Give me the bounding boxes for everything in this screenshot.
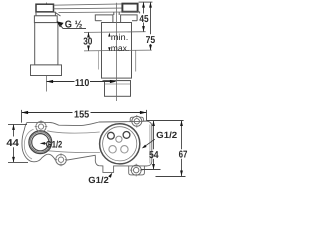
boss hole BR xyxy=(121,146,128,153)
svg-text:G1/2: G1/2 xyxy=(156,130,177,140)
svg-text:G1/2: G1/2 xyxy=(46,139,63,150)
right wing xyxy=(121,15,138,23)
dim 45 ext top xyxy=(139,1,153,3)
right boss inner xyxy=(103,127,137,161)
dim 44 ext top xyxy=(8,123,27,125)
svg-text:155: 155 xyxy=(74,109,90,120)
dim 67 line xyxy=(181,121,183,150)
boss hole TR xyxy=(123,132,130,139)
svg-text:G1/2: G1/2 xyxy=(88,175,109,185)
dim 54 line xyxy=(153,121,155,150)
screw hole A xyxy=(36,122,46,132)
spout body xyxy=(35,23,58,65)
min label xyxy=(108,33,110,37)
dim 75 line xyxy=(150,2,152,34)
boss hole BL xyxy=(109,146,116,153)
bar bottom line xyxy=(59,11,123,14)
boss hole TL xyxy=(108,132,115,139)
ear top right xyxy=(132,116,142,126)
bar mid line xyxy=(54,7,123,10)
svg-text:G ½: G ½ xyxy=(65,19,83,30)
svg-text:110: 110 xyxy=(75,78,90,89)
plate rib bottom xyxy=(49,151,100,153)
spout ring xyxy=(34,16,57,23)
dim 30 line xyxy=(88,32,90,36)
dim 54 ext bottom xyxy=(141,169,161,171)
svg-text:67: 67 xyxy=(179,150,188,161)
dim 155 ext right xyxy=(146,110,148,123)
valve body xyxy=(102,23,132,79)
centerline valve xyxy=(116,3,118,101)
svg-text:45: 45 xyxy=(139,14,149,25)
ear bottom right xyxy=(131,165,141,175)
G12 right leader xyxy=(144,139,155,147)
sleeve edge right xyxy=(135,50,137,71)
boss hole C xyxy=(116,136,122,142)
max line xyxy=(84,49,152,52)
body step line1 xyxy=(103,80,132,82)
spout flange xyxy=(31,65,62,76)
mounting plate outline xyxy=(22,117,152,175)
svg-text:max.: max. xyxy=(111,43,130,53)
G12 left arrow xyxy=(40,142,46,145)
body narrow section xyxy=(105,81,131,97)
svg-text:44: 44 xyxy=(6,138,19,149)
dim 110 line xyxy=(47,81,75,83)
dim 67 ext bottom xyxy=(156,176,186,178)
svg-text:30: 30 xyxy=(83,37,93,48)
left boss inner xyxy=(32,134,49,151)
riser left xyxy=(113,12,115,15)
left wing xyxy=(95,15,113,23)
G12 bottom arrow xyxy=(108,173,112,178)
svg-text:54: 54 xyxy=(149,150,159,161)
centerline left spout xyxy=(46,3,48,92)
plate rib top xyxy=(47,131,99,133)
G half arrow xyxy=(57,21,64,27)
body faint ring xyxy=(105,83,130,85)
bar fillet diagonal xyxy=(55,13,60,16)
dim 155 line xyxy=(22,112,73,114)
bar top line xyxy=(54,4,123,5)
max label xyxy=(108,47,110,51)
min line xyxy=(84,31,146,34)
end block xyxy=(122,4,137,12)
riser right xyxy=(118,12,120,15)
right boss outer xyxy=(100,124,140,164)
plate right end inner edge xyxy=(149,125,151,164)
spout cap xyxy=(36,4,54,12)
svg-text:min.: min. xyxy=(111,32,129,42)
dim 155 ext left xyxy=(21,110,23,123)
svg-text:75: 75 xyxy=(146,35,156,46)
spout cap bottom band xyxy=(36,11,54,13)
end block bottom ext xyxy=(122,11,139,13)
end block right tick xyxy=(139,12,141,14)
dim 44 ext bottom xyxy=(8,161,28,163)
plate end cap inner contour xyxy=(24,129,33,159)
spout collar xyxy=(36,12,55,16)
dim 44 line xyxy=(13,124,15,136)
left boss outer xyxy=(29,131,52,154)
right ext top line xyxy=(147,120,184,122)
sleeve edge left xyxy=(98,51,100,70)
dim 45 line xyxy=(143,2,145,13)
screw hole B xyxy=(56,154,67,165)
